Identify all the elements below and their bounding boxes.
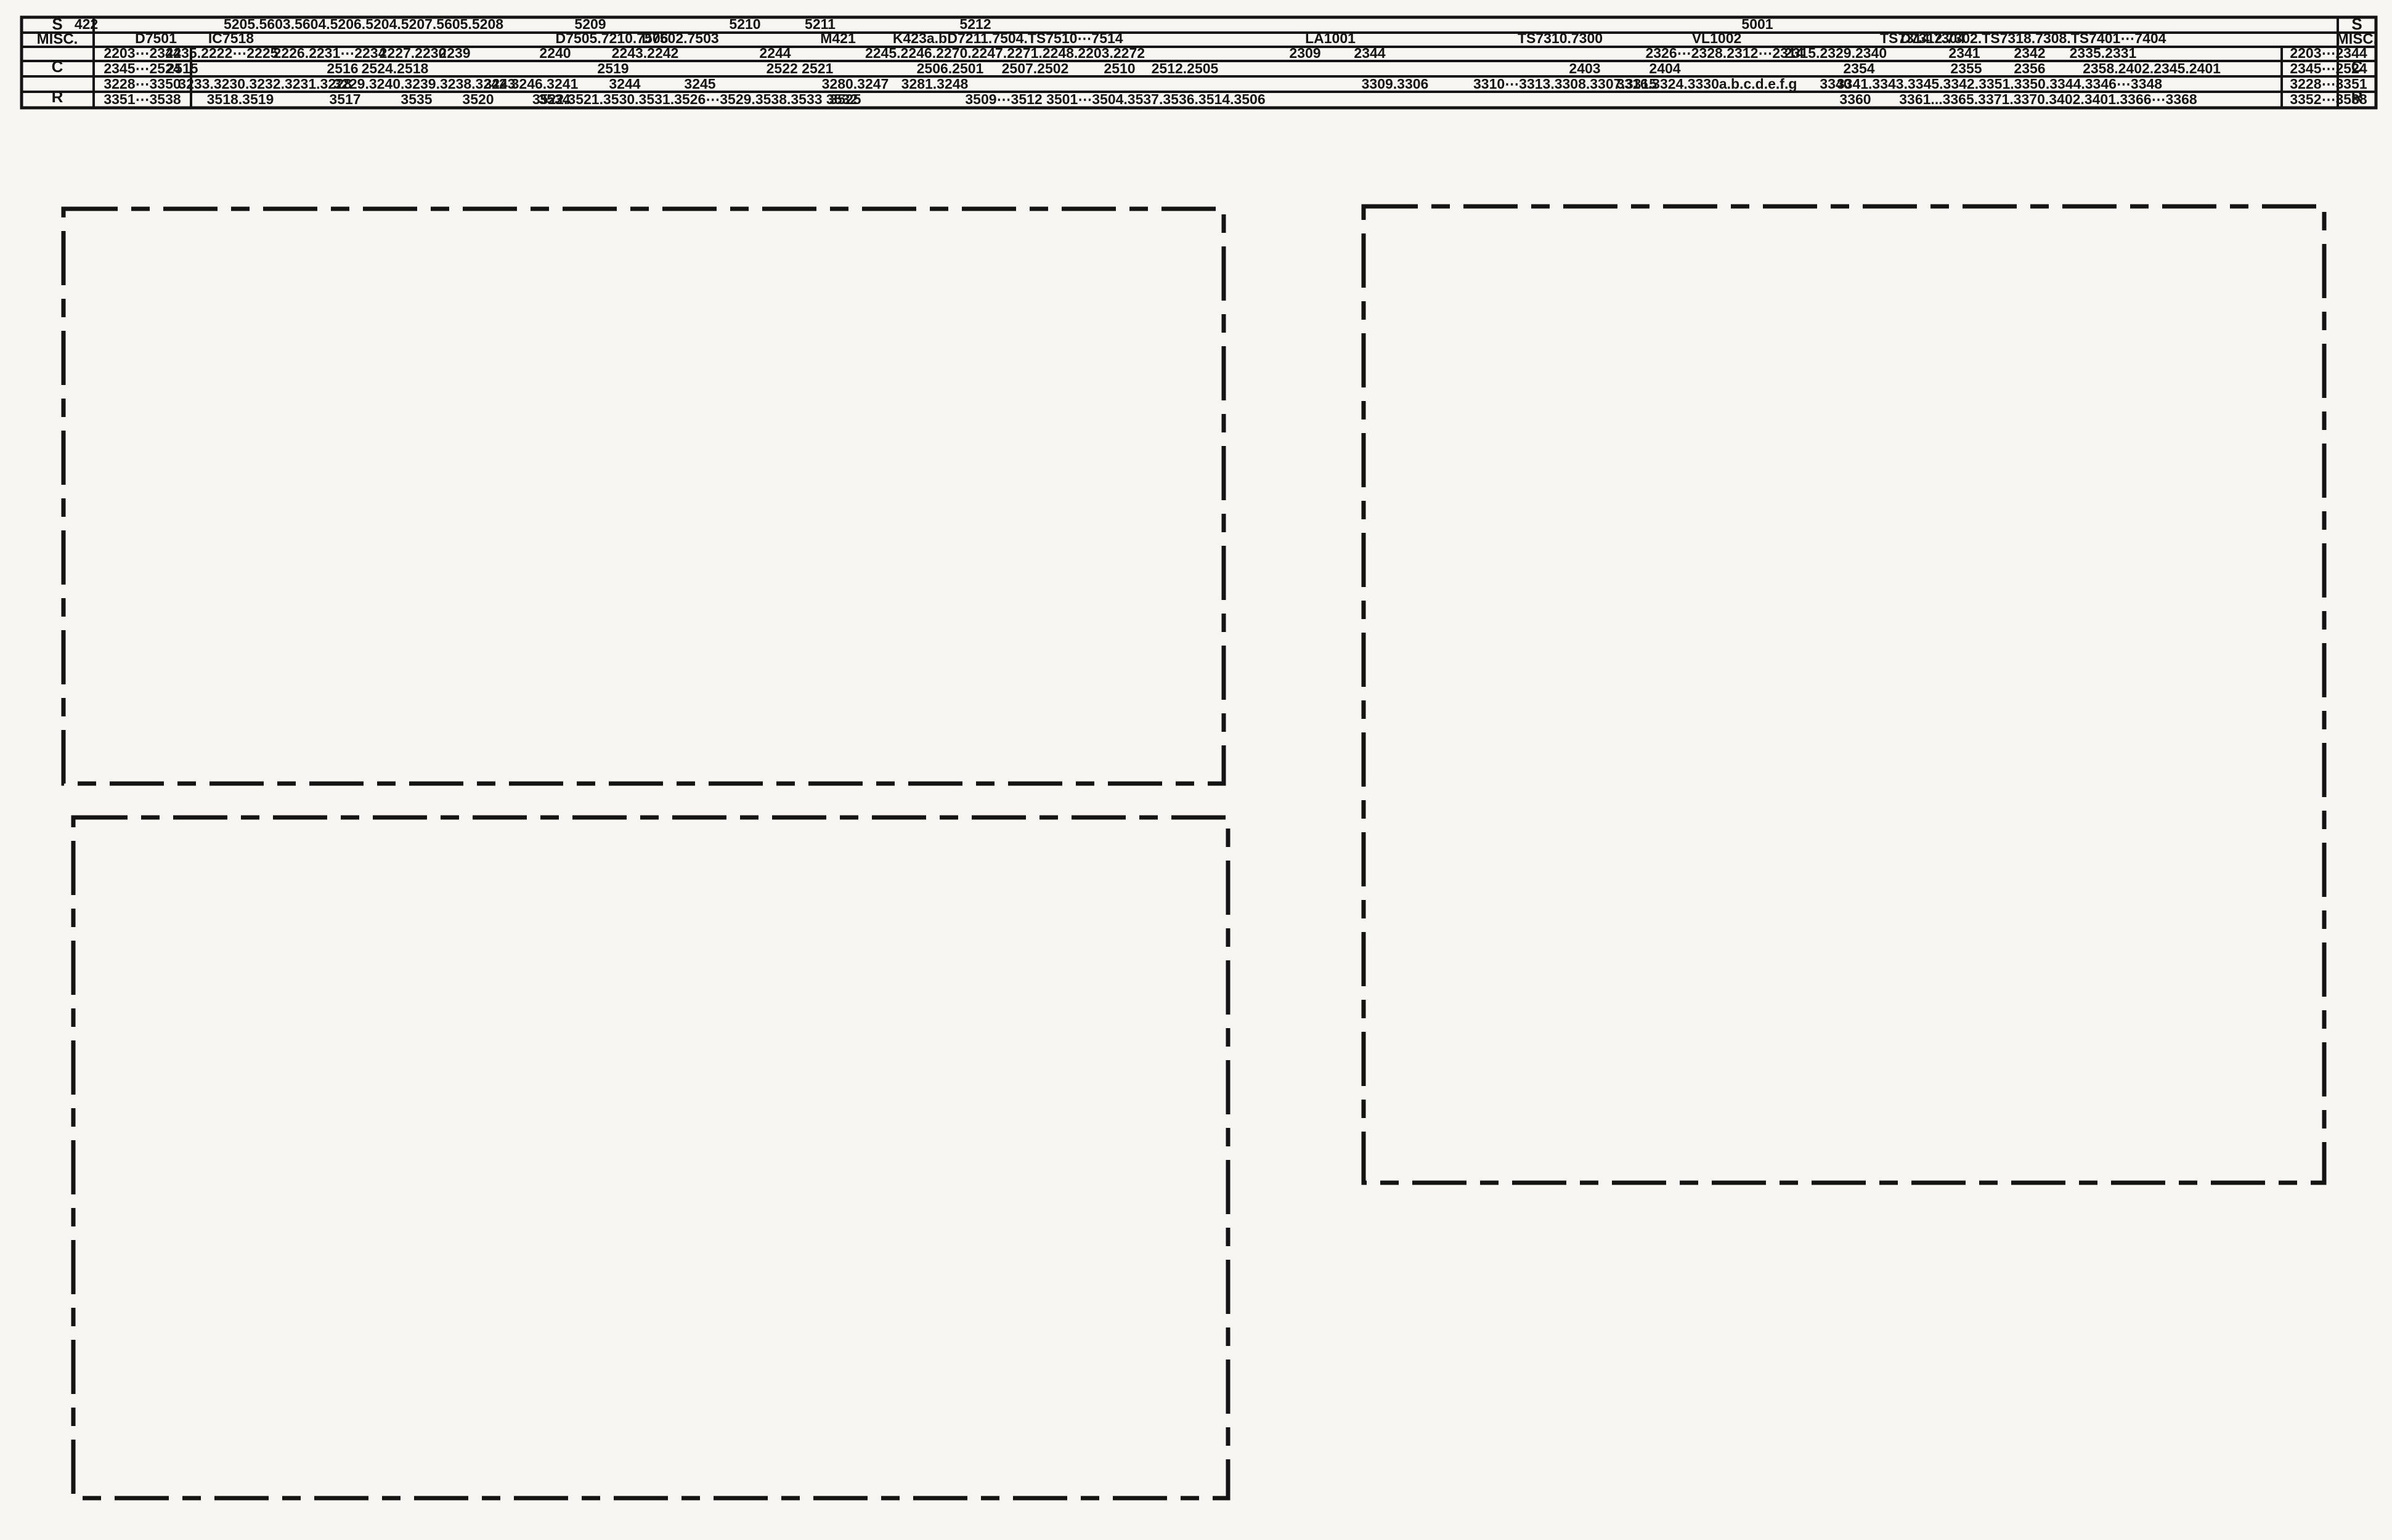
svg-text:3509⋯3512 3501⋯3504.3537.3536.: 3509⋯3512 3501⋯3504.3537.3536.3514.3506 [965,91,1265,107]
svg-text:C: C [52,57,63,76]
svg-text:3245: 3245 [684,76,715,92]
svg-text:2226.2231⋯2234: 2226.2231⋯2234 [274,45,386,61]
svg-text:2244: 2244 [759,45,791,61]
svg-text:2227.2230: 2227.2230 [380,45,447,61]
svg-text:2515: 2515 [166,60,198,76]
svg-text:3309.3306: 3309.3306 [1362,76,1429,92]
svg-text:2235.2222⋯2225: 2235.2222⋯2225 [166,45,279,61]
svg-text:R: R [52,87,63,106]
svg-text:3522.3521.3530.3531.3526⋯3529.: 3522.3521.3530.3531.3526⋯3529.3538.3533 … [532,91,858,107]
svg-text:3535: 3535 [401,91,432,107]
svg-text:D7501: D7501 [135,30,177,46]
svg-text:2355: 2355 [1950,60,1982,76]
svg-text:2356: 2356 [2014,60,2045,76]
svg-text:VL1002: VL1002 [1692,30,1742,46]
svg-text:3280.3247: 3280.3247 [822,76,889,92]
svg-text:2404: 2404 [1649,60,1680,76]
svg-text:3360: 3360 [1839,91,1871,107]
svg-text:3518.3519: 3518.3519 [207,91,274,107]
svg-text:M421: M421 [820,30,856,46]
svg-text:2245.2246.2270.2247.2271.2248.: 2245.2246.2270.2247.2271.2248.2203.2272 [865,45,1145,61]
svg-text:2326⋯2328.2312⋯2314: 2326⋯2328.2312⋯2314 [1645,45,1804,61]
svg-text:3316.3324.3330a.b.c.d.e.f.g: 3316.3324.3330a.b.c.d.e.f.g [1617,76,1797,92]
svg-text:2240: 2240 [539,45,571,61]
svg-text:2345⋯2524: 2345⋯2524 [2290,60,2367,76]
svg-text:3233.3230.3232.3231.3228: 3233.3230.3232.3231.3228 [178,76,352,92]
svg-text:2512.2505: 2512.2505 [1152,60,1219,76]
svg-text:2403: 2403 [1569,60,1600,76]
svg-text:2341: 2341 [1948,45,1980,61]
svg-text:2522 2521: 2522 2521 [767,60,834,76]
svg-text:5210: 5210 [729,16,760,32]
svg-text:3229.3240.3239.3238.3242: 3229.3240.3239.3238.3242 [333,76,506,92]
svg-text:422: 422 [75,16,98,32]
svg-text:3361...3365.3371.3370.3402.340: 3361...3365.3371.3370.3402.3401.3366⋯336… [1899,91,2197,107]
svg-text:LA1001: LA1001 [1305,30,1356,46]
svg-text:2315.2329.2340: 2315.2329.2340 [1784,45,1887,61]
svg-text:2239: 2239 [439,45,470,61]
svg-text:2335.2331: 2335.2331 [2070,45,2137,61]
svg-text:3525: 3525 [829,91,861,107]
svg-text:3244: 3244 [609,76,640,92]
svg-text:2358.2402.2345.2401: 2358.2402.2345.2401 [2083,60,2221,76]
svg-text:2524.2518: 2524.2518 [362,60,429,76]
svg-text:2309: 2309 [1289,45,1320,61]
svg-text:3246.3241: 3246.3241 [511,76,579,92]
svg-text:3228⋯3351: 3228⋯3351 [2290,76,2367,92]
svg-text:3341.3343.3345.3342.3351.3350.: 3341.3343.3345.3342.3351.3350.3344.3346⋯… [1837,76,2162,92]
svg-text:K423a.b: K423a.b [893,30,947,46]
svg-text:3228⋯3350: 3228⋯3350 [104,76,181,92]
svg-text:3517: 3517 [329,91,360,107]
svg-text:2243.2242: 2243.2242 [612,45,679,61]
svg-text:3281.3248: 3281.3248 [901,76,969,92]
svg-text:5001: 5001 [1741,16,1773,32]
svg-text:3351⋯3538: 3351⋯3538 [104,91,181,107]
svg-text:2344: 2344 [1354,45,1385,61]
svg-text:2203⋯2344: 2203⋯2344 [2290,45,2367,61]
svg-text:2516: 2516 [327,60,358,76]
svg-text:2342: 2342 [2014,45,2045,61]
svg-text:IC7518: IC7518 [208,30,254,46]
svg-text:3520: 3520 [462,91,494,107]
svg-text:D7211.7504.TS7510⋯7514: D7211.7504.TS7510⋯7514 [947,30,1123,46]
svg-text:D7502.7503: D7502.7503 [641,30,718,46]
svg-text:MISC.: MISC. [37,31,78,47]
svg-text:2507.2502: 2507.2502 [1002,60,1069,76]
svg-text:2510: 2510 [1104,60,1135,76]
svg-text:5205.5603.5604.5206.5204.5207.: 5205.5603.5604.5206.5204.5207.5605.5208 [224,16,503,32]
svg-text:2519: 2519 [597,60,629,76]
svg-text:TS7310.7300: TS7310.7300 [1518,30,1603,46]
svg-text:2354: 2354 [1843,60,1874,76]
svg-text:3352⋯3538: 3352⋯3538 [2290,91,2367,107]
svg-text:D7312.7302.TS7318.7308.TS7401⋯: D7312.7302.TS7318.7308.TS7401⋯7404 [1901,30,2166,46]
svg-text:2506.2501: 2506.2501 [917,60,984,76]
